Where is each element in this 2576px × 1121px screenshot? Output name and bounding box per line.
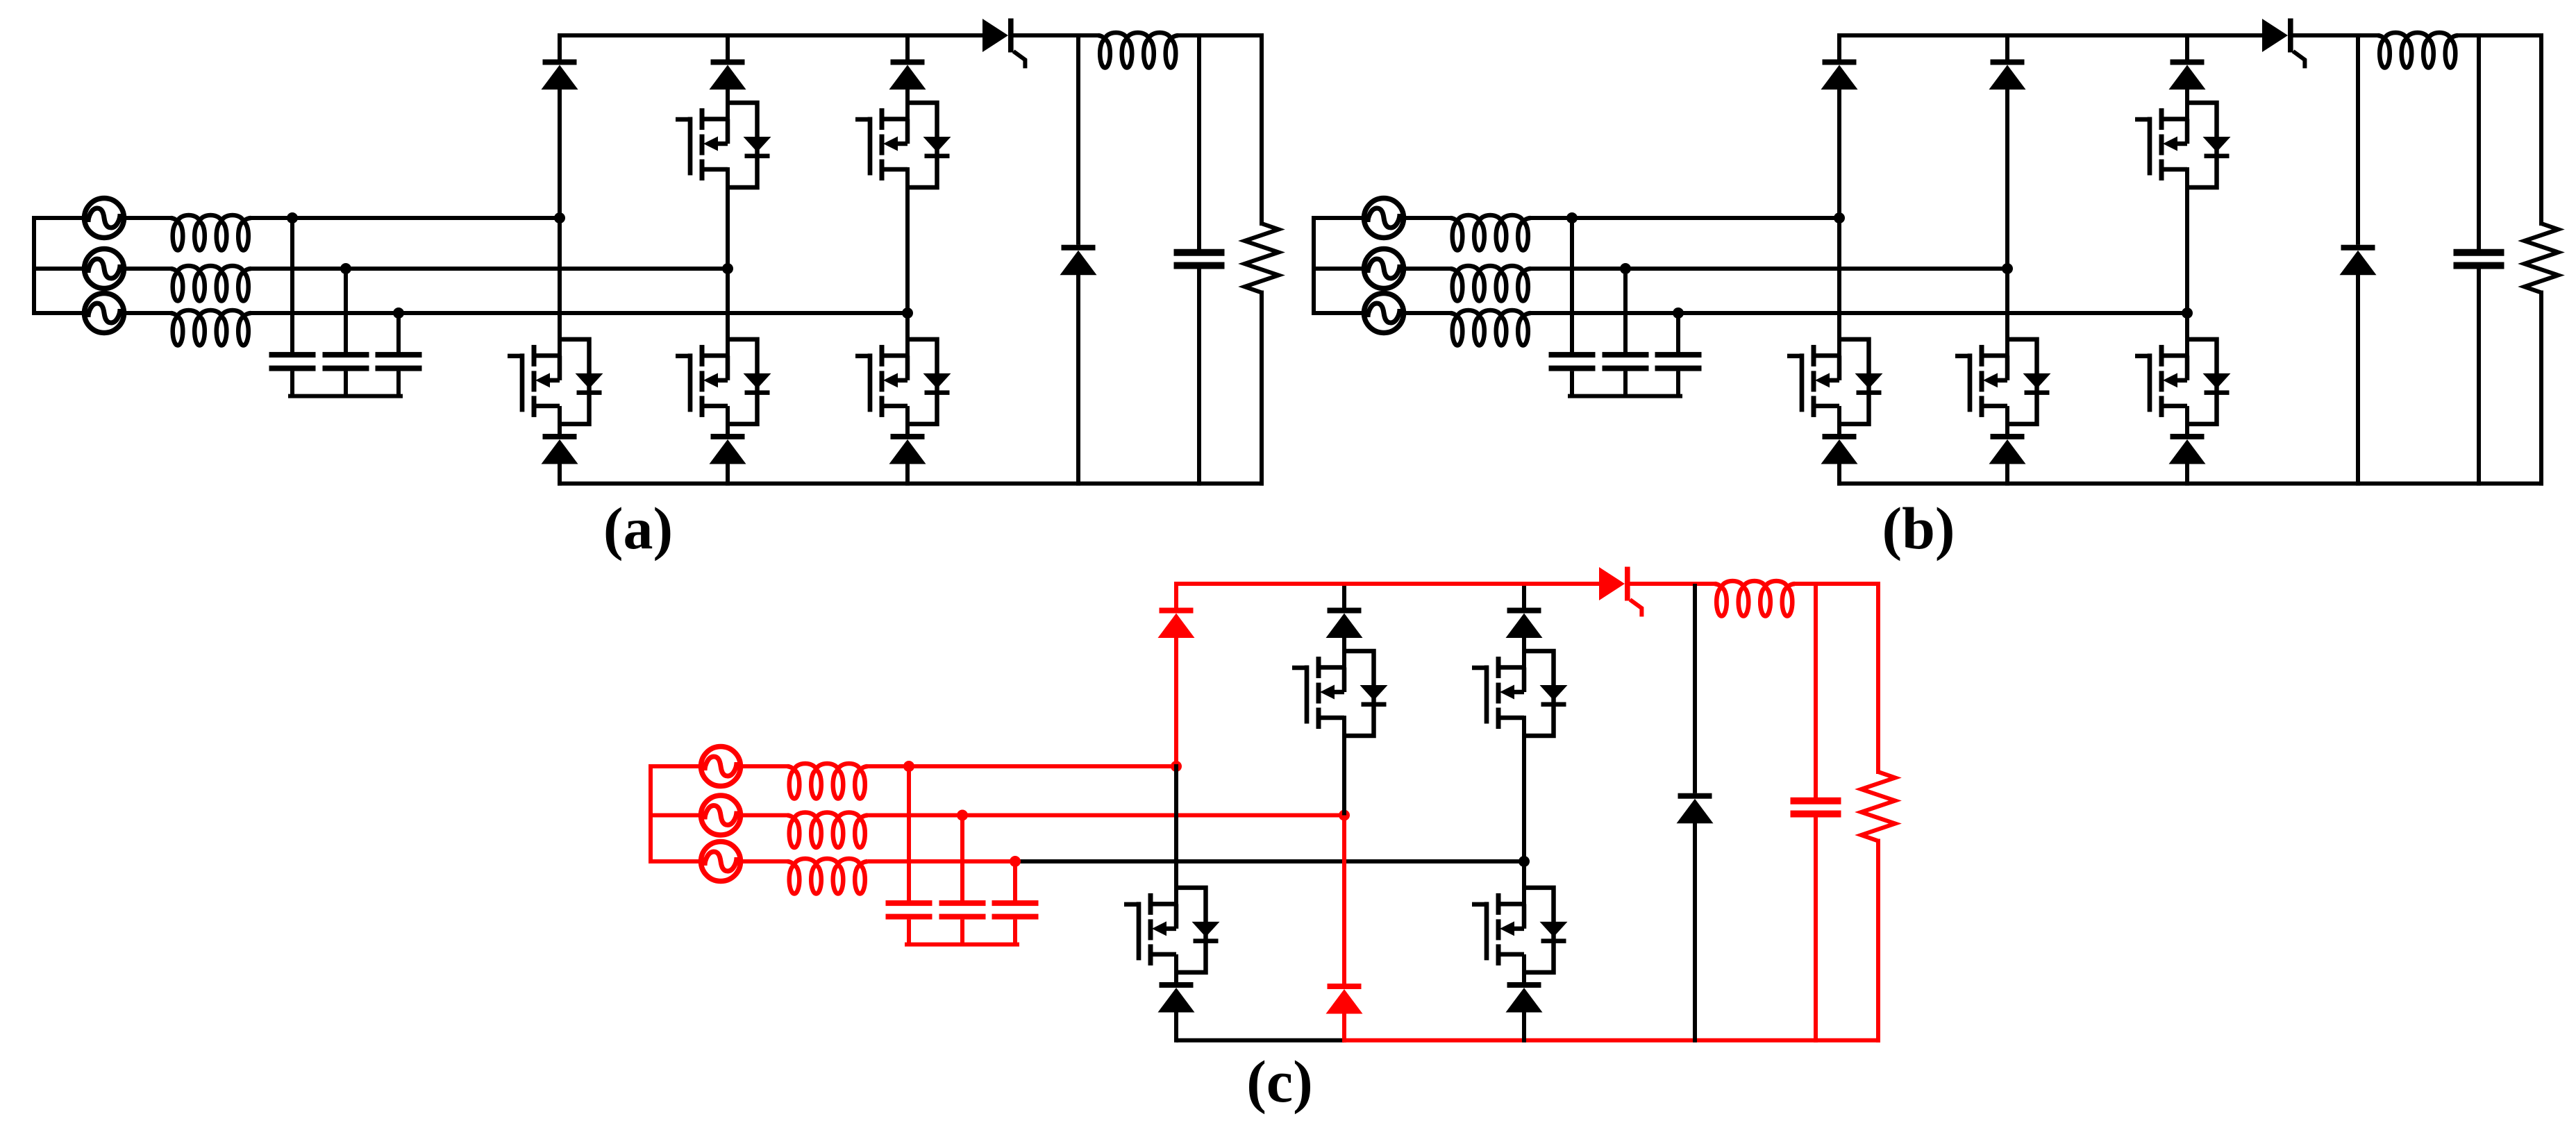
lower mosfet leg 1 (a) xyxy=(508,339,603,424)
filter capacitor Ca (c) xyxy=(886,900,932,945)
wire: load branch lower (b) xyxy=(2539,293,2543,484)
inductor La (a) xyxy=(171,215,251,251)
wire: phase B to filter capacitor (a) xyxy=(344,269,348,352)
lower mosfet leg 1 (b) xyxy=(1787,339,1883,424)
output capacitor Co (c) xyxy=(1791,798,1841,818)
wire: phase B inductor to bridge leg (a) xyxy=(251,267,728,271)
junction: phase A / bridge leg 1 (a) xyxy=(554,212,565,224)
junction: phase C / capacitor (b) xyxy=(1673,307,1684,319)
wire: top rail inductor to corner (c) xyxy=(1795,582,1878,586)
wire: phase B source to inductor (b) xyxy=(1406,267,1450,271)
lower mosfet leg 2 (a) xyxy=(676,339,771,424)
wire: phase C source to inductor (c) xyxy=(743,859,787,863)
wire: leg 1 diode to phase node (a) xyxy=(558,89,562,219)
junction: phase C / bridge leg 3 (c) xyxy=(1519,856,1530,867)
wire: phase B to filter capacitor (b) xyxy=(1623,269,1628,352)
wire: leg 2 diode to mosfet (a) xyxy=(726,89,730,119)
junction: phase A / capacitor (b) xyxy=(1566,212,1578,224)
bottom diode leg 3 (b) xyxy=(2169,434,2206,464)
wire: leg 3 mosfet to phase node (b) xyxy=(2185,169,2189,313)
wire: freewheel branch upper (c) xyxy=(1693,584,1697,793)
filter capacitor Cb (c) xyxy=(939,900,986,945)
inductor Lc (b) xyxy=(1450,310,1531,346)
wire: phase C to filter capacitor (a) xyxy=(396,313,401,352)
wire: phase B inductor to bridge leg (c) xyxy=(868,814,1345,818)
wire: filter capacitor bus (a) xyxy=(290,394,401,398)
wire: load branch lower (c) xyxy=(1876,841,1880,1040)
wire: phase C source lead left (a) xyxy=(34,311,82,315)
junction: phase A / bridge leg 1 (c) xyxy=(1171,761,1182,772)
wire: leg 1 phase node to lower mosfet (c) xyxy=(1174,766,1178,904)
wire: top rail diode to inductor (b) xyxy=(2293,33,2378,37)
top diode leg 1 (a) xyxy=(542,60,578,90)
wire: leg 2 phase node to lower mosfet (b) xyxy=(2005,269,2009,355)
output capacitor Co (a) xyxy=(1174,249,1225,269)
upper mosfet leg 2 (c) xyxy=(1292,651,1388,736)
wire: phase A inductor to bridge leg (b) xyxy=(1531,216,1840,220)
wire: leg 1 diode to phase node (b) xyxy=(1837,89,1841,219)
wire: bottom rail black segment (c) xyxy=(1176,1038,1344,1043)
wire: phase A source lead left (a) xyxy=(34,216,82,220)
wire: top rail left segment (a) xyxy=(560,33,982,37)
wire: leg 3 phase node to lower mosfet (b) xyxy=(2185,313,2189,355)
wire: left bus (a) xyxy=(32,218,36,313)
wire: output cap branch upper (c) xyxy=(1814,584,1818,798)
wire: leg 1 top stub (c) xyxy=(1174,584,1178,608)
top diode leg 2 (b) xyxy=(1989,60,2026,90)
wire: leg 2 bottom stub (a) xyxy=(726,463,730,484)
wire: leg 3 bottom stub (b) xyxy=(2185,463,2189,484)
filter capacitor Cc (a) xyxy=(376,352,422,396)
wire: load branch upper (b) xyxy=(2539,35,2543,224)
wire: output cap branch lower (a) xyxy=(1197,269,1201,484)
wire: leg 2 phase node to lower mosfet (a) xyxy=(726,269,730,355)
wire: leg 2 mosfet to bottom diode (a) xyxy=(726,406,730,434)
ac source Va (b) xyxy=(1364,199,1404,238)
wire: output cap branch lower (b) xyxy=(2477,269,2481,484)
load resistor R (c) xyxy=(1862,772,1896,841)
wire: leg 2 bottom stub (c) xyxy=(1342,1013,1346,1040)
lower mosfet leg 3 (c) xyxy=(1472,888,1568,972)
boost diode D7 (b) xyxy=(2262,19,2305,69)
wire: leg 1 bottom stub (b) xyxy=(1837,463,1841,484)
ac source Vb (a) xyxy=(85,249,124,289)
junction: phase C / bridge leg 3 (a) xyxy=(902,307,913,319)
ac source Vb (b) xyxy=(1364,249,1404,289)
wire: leg 3 mosfet to bottom diode (a) xyxy=(905,406,910,434)
top diode leg 1 (b) xyxy=(1821,60,1858,90)
ac source Va (a) xyxy=(85,199,124,238)
wire: leg 2 top stub (b) xyxy=(2005,35,2009,60)
wire: phase A to filter capacitor (b) xyxy=(1570,218,1574,352)
output inductor Lo (a) xyxy=(1098,33,1179,68)
wire: leg 1 phase node to lower mosfet (b) xyxy=(1837,218,1841,355)
wire: phase C source lead left (b) xyxy=(1314,311,1362,315)
wire: bottom rail red segment (c) xyxy=(1344,1038,1878,1043)
wire: phase C inductor to node (c) xyxy=(868,859,1021,863)
svg-text:(a): (a) xyxy=(603,495,673,562)
junction: phase B / bridge leg 2 (a) xyxy=(722,263,733,274)
boost diode D7 (a) xyxy=(982,19,1025,69)
upper mosfet leg 3 (a) xyxy=(855,103,951,187)
wire: phase A to filter capacitor (c) xyxy=(907,766,911,900)
filter capacitor Ca (b) xyxy=(1549,352,1596,396)
bottom diode leg 3 (a) xyxy=(889,434,926,464)
wire: leg 1 mosfet to bottom diode (c) xyxy=(1174,954,1178,982)
wire: output cap branch upper (b) xyxy=(2477,35,2481,249)
junction: phase C / capacitor (c) xyxy=(1010,856,1021,867)
lower mosfet leg 1 (c) xyxy=(1124,888,1220,972)
load resistor R (b) xyxy=(2525,224,2559,293)
bottom diode leg 1 (a) xyxy=(542,434,578,464)
wire: leg 1 mosfet to bottom diode (a) xyxy=(558,406,562,434)
load resistor R (a) xyxy=(1245,224,1279,293)
wire: phase B source lead left (c) xyxy=(651,814,699,818)
wire: leg 2 top stub (a) xyxy=(726,35,730,60)
ac source Vc (a) xyxy=(85,294,124,333)
boost diode D7 (c) xyxy=(1599,567,1641,617)
top diode leg 3 (c) xyxy=(1506,608,1543,639)
ac source Vb (c) xyxy=(701,795,741,835)
wire: top rail inductor to corner (a) xyxy=(1178,33,1262,37)
filter capacitor Cc (b) xyxy=(1655,352,1702,396)
ac source Vc (c) xyxy=(701,842,741,882)
junction: phase B / bridge leg 2 (b) xyxy=(2002,263,2013,274)
wire: output cap branch upper (a) xyxy=(1197,35,1201,249)
wire: leg 3 phase node to lower mosfet (a) xyxy=(905,313,910,355)
svg-text:(b): (b) xyxy=(1882,495,1955,562)
wire: leg 3 mosfet to phase node (a) xyxy=(905,169,910,313)
output inductor Lo (b) xyxy=(2378,33,2459,68)
lower mosfet leg 3 (a) xyxy=(855,339,951,424)
wire: phase A inductor to bridge leg (c) xyxy=(868,764,1177,768)
inductor Lb (b) xyxy=(1450,266,1531,301)
wire: top rail left segment (c) xyxy=(1176,582,1599,586)
wire: top rail diode to inductor (c) xyxy=(1630,582,1715,586)
bottom diode leg 3 (c) xyxy=(1506,982,1543,1013)
filter capacitor Cc (c) xyxy=(992,900,1039,945)
wire: leg 1 bottom stub (a) xyxy=(558,463,562,484)
freewheel diode D8 (b) xyxy=(2340,245,2377,276)
wire: leg 3 mosfet to bottom diode (b) xyxy=(2185,406,2189,434)
junction: phase C / bridge leg 3 (b) xyxy=(2182,307,2193,319)
wire: load branch upper (c) xyxy=(1876,584,1880,772)
wire: phase B source to inductor (a) xyxy=(126,267,171,271)
inductor Lb (a) xyxy=(171,266,251,301)
top diode leg 3 (b) xyxy=(2169,60,2206,90)
wire: top rail diode to inductor (a) xyxy=(1014,33,1098,37)
wire: phase C source to inductor (a) xyxy=(126,311,171,315)
junction: phase A / capacitor (c) xyxy=(903,761,914,772)
wire: leg 3 top stub (c) xyxy=(1522,584,1526,608)
wire: leg 2 bottom stub (b) xyxy=(2005,463,2009,484)
wire: top rail left segment (b) xyxy=(1839,33,2262,37)
bypass diode leg 2 (c) xyxy=(1326,984,1363,1014)
wire: bottom rail (a) xyxy=(560,482,1262,486)
inductor Lb (c) xyxy=(787,813,868,848)
wire: phase B inductor to bridge leg (b) xyxy=(1531,267,2008,271)
svg-text:(c): (c) xyxy=(1246,1048,1312,1115)
upper mosfet leg 3 (b) xyxy=(2135,103,2231,187)
bottom diode leg 2 (b) xyxy=(1989,434,2026,464)
inductor Lc (a) xyxy=(171,310,251,346)
wire: phase C inductor to bridge leg (b) xyxy=(1531,311,2188,315)
wire: filter capacitor bus (b) xyxy=(1570,394,1680,398)
wire: leg 3 top stub (b) xyxy=(2185,35,2189,60)
wire: output cap branch lower (c) xyxy=(1814,818,1818,1040)
wire: load branch upper (a) xyxy=(1260,35,1264,224)
filter capacitor Cb (a) xyxy=(323,352,369,396)
wire: leg 2 mosfet to phase node (c) xyxy=(1342,718,1346,816)
junction: phase B / capacitor (a) xyxy=(340,263,351,274)
wire: phase B to filter capacitor (c) xyxy=(960,816,964,901)
wire: leg 1 top stub (a) xyxy=(558,35,562,60)
wire: load branch lower (a) xyxy=(1260,293,1264,484)
wire: leg 2 mosfet to bottom diode (b) xyxy=(2005,406,2009,434)
top diode leg 1 (c) xyxy=(1158,608,1195,639)
wire: leg 3 bottom stub (a) xyxy=(905,463,910,484)
bottom diode leg 1 (c) xyxy=(1158,982,1195,1013)
top diode leg 2 (c) xyxy=(1326,608,1363,639)
upper mosfet leg 2 (a) xyxy=(676,103,771,187)
wire: phase A inductor to bridge leg (a) xyxy=(251,216,560,220)
wire: left bus (c) xyxy=(649,766,653,861)
bottom diode leg 1 (b) xyxy=(1821,434,1858,464)
wire: leg 1 diode to phase node (c) xyxy=(1174,637,1178,767)
upper mosfet leg 3 (c) xyxy=(1472,651,1568,736)
wire: freewheel branch lower (a) xyxy=(1076,274,1080,484)
wire: phase B source to inductor (c) xyxy=(743,814,787,818)
wire: leg 3 mosfet to phase node (c) xyxy=(1522,718,1526,861)
wire: leg 1 phase node to lower mosfet (a) xyxy=(558,218,562,355)
wire: bottom rail (b) xyxy=(1839,482,2541,486)
filter capacitor Ca (a) xyxy=(269,352,316,396)
bottom diode leg 2 (a) xyxy=(710,434,746,464)
wire: leg 3 diode to mosfet (a) xyxy=(905,89,910,119)
wire: phase A to filter capacitor (a) xyxy=(290,218,294,352)
wire: leg 2 diode to mosfet (c) xyxy=(1342,637,1346,668)
wire: top rail inductor to corner (b) xyxy=(2458,33,2541,37)
wire: leg 3 phase node to lower mosfet (c) xyxy=(1522,861,1526,904)
wire: phase A source to inductor (c) xyxy=(743,764,787,768)
wire: left bus (b) xyxy=(1312,218,1316,313)
junction: phase B / bridge leg 2 (c) xyxy=(1339,810,1350,821)
wire: leg 2 phase node to diode (c) xyxy=(1342,816,1346,984)
junction: phase A / bridge leg 1 (b) xyxy=(1834,212,1845,224)
inductor La (c) xyxy=(787,764,868,799)
wire: phase B source lead left (a) xyxy=(34,267,82,271)
wire: leg 3 diode to mosfet (b) xyxy=(2185,89,2189,119)
wire: leg 2 mosfet to phase node (a) xyxy=(726,169,730,269)
junction: phase B / capacitor (b) xyxy=(1620,263,1631,274)
wire: phase C source lead left (c) xyxy=(651,859,699,863)
wire: leg 2 diode to phase node (b) xyxy=(2005,89,2009,269)
wire: leg 3 diode to mosfet (c) xyxy=(1522,637,1526,668)
wire: phase B source lead left (b) xyxy=(1314,267,1362,271)
wire: freewheel branch upper (a) xyxy=(1076,35,1080,245)
output capacitor Co (b) xyxy=(2454,249,2504,269)
wire: freewheel branch upper (b) xyxy=(2356,35,2360,245)
inductor Lc (c) xyxy=(787,859,868,894)
wire: leg 3 mosfet to bottom diode (c) xyxy=(1522,954,1526,982)
ac source Va (c) xyxy=(701,747,741,786)
top diode leg 3 (a) xyxy=(889,60,926,90)
top diode leg 2 (a) xyxy=(710,60,746,90)
wire: phase C to filter capacitor (c) xyxy=(1013,861,1017,900)
wire: freewheel branch lower (c) xyxy=(1693,823,1697,1040)
wire: leg 1 mosfet to bottom diode (b) xyxy=(1837,406,1841,434)
wire: phase A source to inductor (b) xyxy=(1406,216,1450,220)
freewheel diode D8 (c) xyxy=(1677,793,1714,824)
wire: phase A source to inductor (a) xyxy=(126,216,171,220)
filter capacitor Cb (b) xyxy=(1603,352,1649,396)
wire: phase A source lead left (c) xyxy=(651,764,699,768)
junction: phase B / capacitor (c) xyxy=(957,810,968,821)
wire: filter capacitor bus (c) xyxy=(907,943,1017,947)
wire: phase C inductor to bridge leg (a) xyxy=(251,311,908,315)
wire: leg 3 bottom stub (c) xyxy=(1522,1011,1526,1040)
wire: phase C source to inductor (b) xyxy=(1406,311,1450,315)
wire: phase C node to bridge leg (c) xyxy=(1020,859,1524,863)
wire: freewheel branch lower (b) xyxy=(2356,274,2360,484)
wire: leg 1 top stub (b) xyxy=(1837,35,1841,60)
wire: phase C to filter capacitor (b) xyxy=(1676,313,1680,352)
wire: leg 3 top stub (a) xyxy=(905,35,910,60)
junction: phase C / capacitor (a) xyxy=(393,307,404,319)
junction: phase A / capacitor (a) xyxy=(287,212,298,224)
inductor La (b) xyxy=(1450,215,1531,251)
ac source Vc (b) xyxy=(1364,294,1404,333)
wire: phase A source lead left (b) xyxy=(1314,216,1362,220)
output inductor Lo (c) xyxy=(1715,581,1796,616)
lower mosfet leg 3 (b) xyxy=(2135,339,2231,424)
wire: leg 2 top stub (c) xyxy=(1342,584,1346,608)
lower mosfet leg 2 (b) xyxy=(1955,339,2051,424)
wire: leg 1 bottom stub (c) xyxy=(1174,1011,1178,1040)
freewheel diode D8 (a) xyxy=(1060,245,1097,276)
